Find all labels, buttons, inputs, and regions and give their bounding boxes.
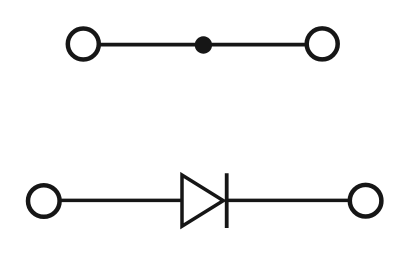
wire (bottom conductor, right segment from diode cathode) [225,199,349,203]
terminal circle, bottom-right (level 1, right contact) [350,185,382,217]
wire (top conductor between terminals) [99,43,306,47]
diode D1 (cathode bar) [225,173,229,228]
node (junction dot on top conductor) [195,36,212,53]
diode D1 (triangle / anode) [182,175,223,226]
terminal circle, top-right (level 2, right contact) [307,28,338,59]
terminal circle, top-left (level 2, left contact) [68,29,99,60]
terminal circle, bottom-left (level 1, left contact) [28,185,60,217]
wire (bottom conductor, left segment to diode anode) [61,199,183,203]
